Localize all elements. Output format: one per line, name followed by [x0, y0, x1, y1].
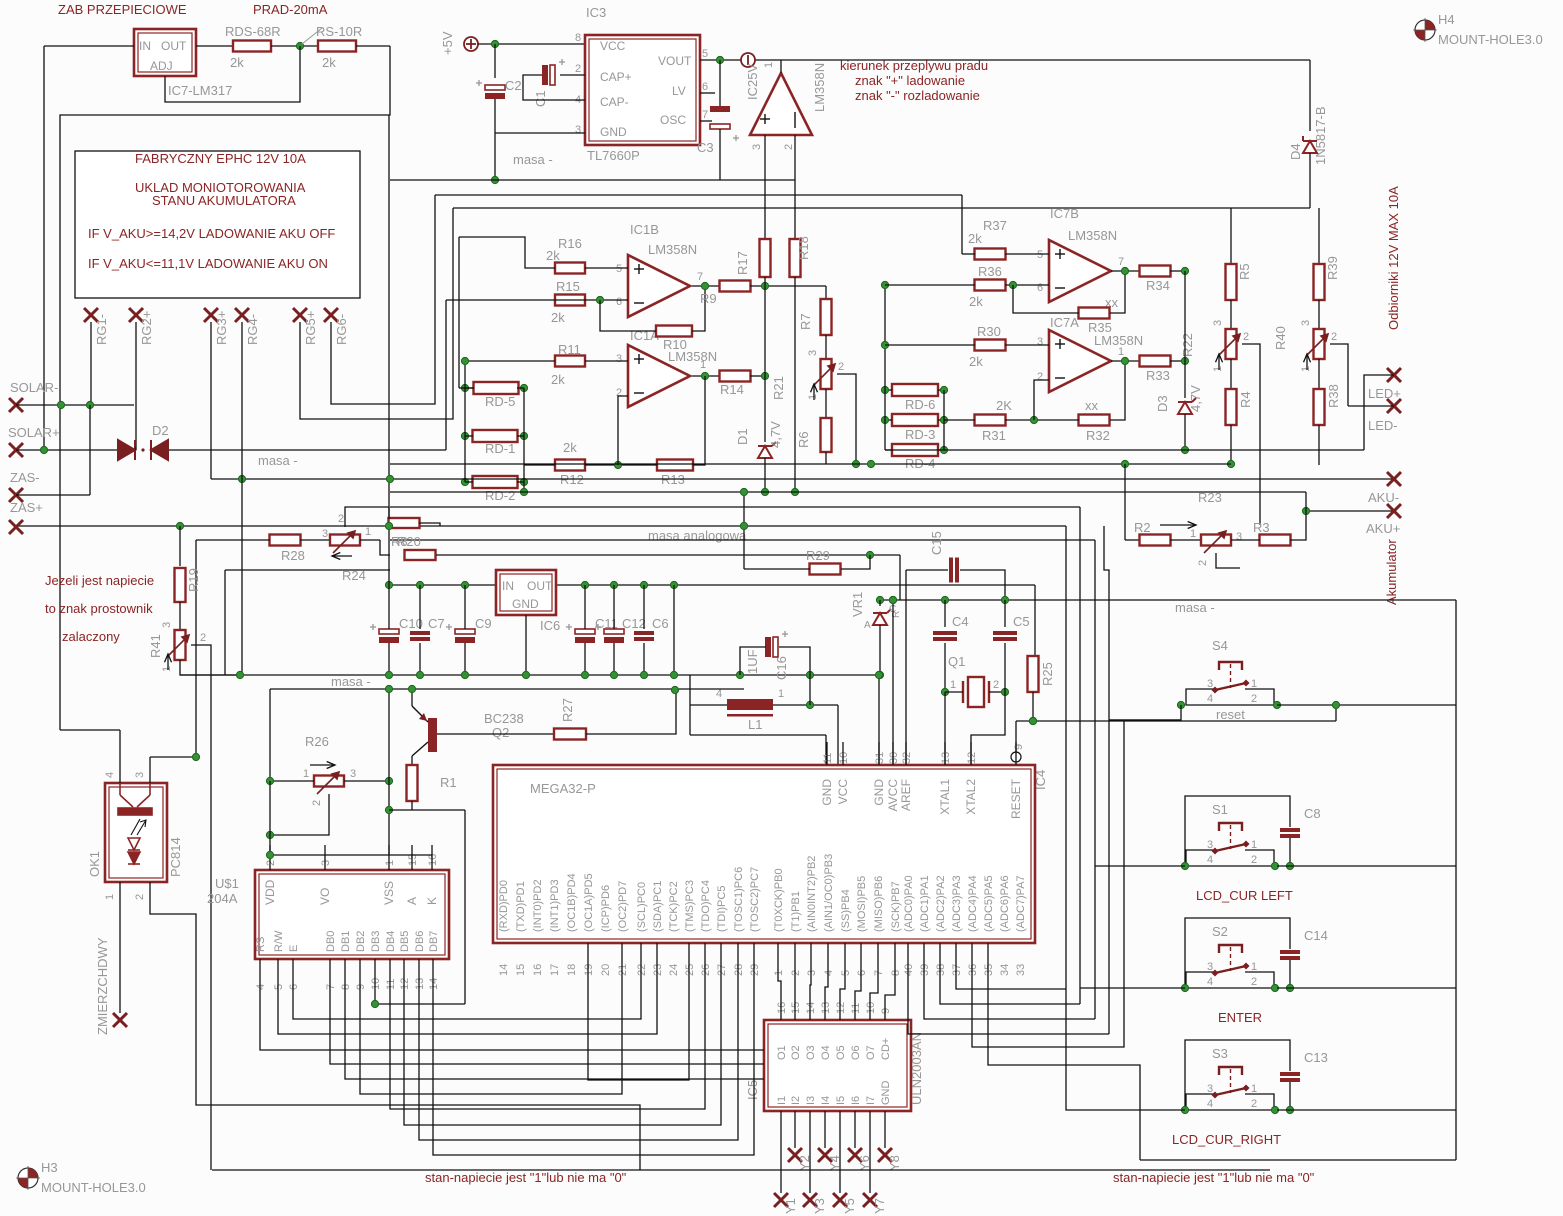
- wire R37 feed: [962, 253, 975, 255]
- svg-text:6: 6: [616, 296, 622, 308]
- label R32: [1086, 428, 1110, 443]
- svg-text:R7: R7: [798, 313, 813, 330]
- wire vcc pin10: [837, 705, 839, 765]
- svg-text:to znak prostownik: to znak prostownik: [45, 601, 153, 616]
- svg-text:2: 2: [1243, 331, 1249, 343]
- junction AVCC: [889, 596, 896, 603]
- wire R22 tap: [1242, 344, 1260, 525]
- wire RD-6 stub L: [885, 389, 892, 391]
- op-amp IC7A: [1049, 330, 1111, 392]
- pin CD+: [880, 1038, 892, 1060]
- svg-text:R34: R34: [1146, 278, 1170, 293]
- wire PB to ULN: [810, 943, 811, 1020]
- pin (SCL)PC0: [636, 882, 648, 932]
- label R27: [560, 698, 575, 722]
- junction RD2 R: [520, 478, 527, 485]
- pin GND: [872, 779, 886, 806]
- svg-text:R28: R28: [281, 548, 305, 563]
- wire masa rail top: [390, 179, 795, 181]
- pin2 R24: [338, 513, 344, 525]
- junction S4 R: [1273, 701, 1280, 708]
- pin (MISO)PB6: [873, 876, 885, 932]
- wire R16 feed: [459, 237, 555, 268]
- svg-text:2: 2: [338, 513, 344, 525]
- svg-text:(ADC4)PA4: (ADC4)PA4: [967, 875, 979, 932]
- wire R3 up: [1290, 511, 1306, 540]
- svg-text:R6: R6: [796, 431, 811, 448]
- wire SOLAR+ b: [168, 449, 446, 451]
- wire rail y464: [390, 463, 1231, 465]
- svg-text:kierunek przeplywu pradu: kierunek przeplywu pradu: [840, 58, 988, 73]
- wire PB to ULN: [794, 943, 796, 1020]
- wire col 1095: [1094, 540, 1096, 1019]
- svg-text:I3: I3: [805, 1096, 817, 1105]
- label R1: [440, 775, 457, 790]
- label R6: [796, 431, 811, 448]
- pin I4: [820, 1096, 832, 1105]
- svg-text:OUT: OUT: [527, 579, 553, 593]
- wire R20 left vert: [388, 507, 390, 519]
- label LM358N IC7B: [1068, 228, 1117, 243]
- junction rail585 e: [610, 581, 617, 588]
- label R37: [983, 218, 1007, 233]
- switch S3: [1186, 1067, 1274, 1110]
- label D3: [1155, 395, 1170, 412]
- label IC6: [540, 618, 560, 633]
- wire rail y492 R23: [390, 491, 1306, 493]
- wire RESET pin: [1015, 721, 1017, 752]
- wire R4 down: [1230, 425, 1232, 464]
- svg-text:A: A: [864, 620, 871, 631]
- pin2 R40: [1331, 331, 1337, 343]
- wire rail y450: [885, 449, 1364, 451]
- svg-text:XTAL2: XTAL2: [964, 779, 978, 815]
- svg-text:3: 3: [1037, 336, 1043, 348]
- junction pot tap: [852, 460, 859, 467]
- svg-text:RD-5: RD-5: [485, 394, 515, 409]
- svg-text:RDS-68R: RDS-68R: [225, 24, 281, 39]
- value D1 4.7V: [768, 421, 783, 448]
- pin number 7: [325, 984, 337, 990]
- wire cap top: [388, 585, 390, 629]
- svg-text:(MOSI)PB5: (MOSI)PB5: [856, 876, 868, 932]
- wire RD5 stub: [459, 387, 474, 389]
- wire nest DB2: [360, 943, 622, 1094]
- pin1 Q1: [950, 679, 956, 691]
- pin number 11: [385, 979, 397, 990]
- wire RG3 down: [210, 322, 212, 479]
- wire ZAS-: [16, 494, 90, 496]
- svg-text:(OC1A)PD5: (OC1A)PD5: [583, 873, 595, 932]
- svg-text:(INT1)PD3: (INT1)PD3: [549, 879, 561, 932]
- svg-text:Y7: Y7: [872, 1198, 887, 1214]
- svg-text:C2: C2: [505, 78, 522, 93]
- wire RD3 to R31: [944, 419, 975, 421]
- svg-text:RESET: RESET: [1009, 778, 1023, 819]
- svg-text:1: 1: [1118, 346, 1124, 358]
- wire R2 pot: [1170, 539, 1200, 541]
- wire C16 left: [740, 647, 766, 675]
- wire cap top: [584, 585, 586, 629]
- label ULN2003AN: [909, 1032, 924, 1105]
- label IC1B: [630, 222, 659, 237]
- wire R11 pin3: [585, 360, 628, 362]
- wire pot to R6: [825, 389, 827, 419]
- svg-text:1: 1: [384, 860, 396, 866]
- svg-text:AREF: AREF: [899, 779, 913, 811]
- wire reset link: [1335, 705, 1337, 721]
- wire R36 pin6: [1005, 284, 1049, 286]
- junction RD1 R: [520, 432, 527, 439]
- wire uln bottom even: [854, 1111, 856, 1148]
- svg-text:IC7-LM317: IC7-LM317: [168, 83, 232, 98]
- svg-text:2: 2: [1331, 331, 1337, 343]
- pin number 9: [355, 984, 367, 990]
- label C3: [697, 140, 714, 155]
- junction R11 feed: [461, 357, 468, 364]
- op-amp IC1A: [628, 345, 690, 407]
- pin2 pot: [838, 361, 844, 373]
- wire nest DB7: [433, 943, 754, 1155]
- label RD-2: [485, 488, 515, 503]
- junction rail479 b: [386, 475, 393, 482]
- wire to C2: [494, 44, 496, 78]
- svg-text:I5: I5: [835, 1096, 847, 1105]
- pin 5: [702, 48, 708, 60]
- svg-text:stan-napiecie jest "1"lub nie: stan-napiecie jest "1"lub nie ma "0": [1113, 1170, 1315, 1185]
- wire RG2: [135, 322, 137, 447]
- text stan-napiecie right: [1113, 1170, 1315, 1185]
- wire x446 down: [445, 300, 447, 450]
- wire OSC stub: [700, 120, 712, 122]
- svg-text:3: 3: [806, 970, 818, 976]
- svg-text:1: 1: [303, 768, 309, 780]
- label R2: [1134, 520, 1151, 535]
- wire R26 pin2: [270, 794, 329, 835]
- pin I7: [865, 1096, 877, 1105]
- wire R12 R13: [585, 464, 657, 466]
- wire uln bottom odd: [869, 1111, 871, 1193]
- wire pot R3: [1231, 539, 1260, 541]
- svg-text:(ADC7)PA7: (ADC7)PA7: [1015, 875, 1027, 932]
- svg-text:3: 3: [320, 860, 332, 866]
- svg-text:D1: D1: [735, 428, 750, 445]
- label R34: [1146, 278, 1170, 293]
- pin number 40: [903, 964, 915, 976]
- pin2 R22: [1243, 331, 1249, 343]
- pin1 R26: [303, 768, 309, 780]
- switch S1: [1186, 823, 1274, 866]
- junction +5V C2: [491, 40, 498, 47]
- wire S1 feed: [1095, 865, 1185, 867]
- svg-text:RG4-: RG4-: [245, 314, 260, 345]
- svg-text:3: 3: [1207, 1083, 1213, 1095]
- svg-text:(AIN1/OC0)PB3: (AIN1/OC0)PB3: [823, 854, 835, 932]
- svg-text:Y3: Y3: [812, 1198, 827, 1214]
- wire lcd bottom stub: [374, 959, 376, 995]
- junction D3 masa: [1181, 446, 1188, 453]
- junction R26 R: [385, 777, 392, 784]
- pin VO: [318, 888, 332, 905]
- pin number 10: [370, 978, 382, 990]
- pin DB1: [340, 931, 352, 952]
- wire RD left col: [884, 285, 886, 450]
- svg-text:R19: R19: [186, 568, 201, 592]
- pin 6: [702, 81, 708, 93]
- pin (TMS)PC3: [684, 880, 696, 932]
- wire lcd top stub: [269, 845, 271, 870]
- svg-text:1: 1: [773, 970, 785, 976]
- no-connect LED-: [1387, 399, 1401, 413]
- wire x196 vertical: [195, 540, 197, 757]
- svg-text:I1: I1: [776, 1096, 788, 1105]
- wire cap bottom: [584, 643, 586, 675]
- junction masa675: [461, 671, 468, 678]
- svg-text:32: 32: [901, 752, 913, 764]
- label R18: [796, 236, 811, 260]
- label R24: [342, 568, 366, 583]
- resistor R6: [821, 418, 832, 452]
- svg-text:masa -: masa -: [513, 152, 553, 167]
- wire RD-5 stub R: [517, 387, 524, 389]
- wire RG4 down: [241, 322, 243, 675]
- wire LV stub: [700, 92, 715, 94]
- svg-text:LM358N: LM358N: [812, 63, 827, 112]
- op-amp IC7B: [1049, 240, 1111, 302]
- label Q1: [948, 654, 965, 669]
- svg-text:reset: reset: [1216, 707, 1245, 722]
- wire cap bottom: [613, 643, 615, 675]
- pin4 OK1: [104, 772, 116, 778]
- wire Q2 base: [437, 733, 554, 735]
- wire v744: [743, 492, 745, 569]
- svg-text:1: 1: [1251, 961, 1257, 973]
- svg-text:C16: C16: [774, 656, 789, 680]
- svg-text:1: 1: [1212, 366, 1224, 372]
- wire R25 down: [1032, 692, 1034, 721]
- pin (INT0)PD2: [532, 879, 544, 932]
- value 2k R11: [551, 372, 565, 387]
- svg-text:R5: R5: [1237, 263, 1252, 280]
- svg-text:1: 1: [365, 526, 371, 538]
- text FABRYCZNY EPHC 12V 10A: [135, 151, 306, 166]
- wire RD-3 stub R: [938, 419, 944, 421]
- svg-text:DB3: DB3: [370, 931, 382, 952]
- wire RD-3 stub L: [885, 419, 892, 421]
- junction S3 a: [1271, 1106, 1278, 1113]
- wire lcd bottom stub: [344, 959, 346, 995]
- svg-text:VDD: VDD: [263, 879, 277, 905]
- svg-text:4: 4: [823, 970, 835, 976]
- svg-text:SOLAR-: SOLAR-: [10, 380, 58, 395]
- pin number 10: [838, 752, 850, 764]
- label IC3: [586, 5, 606, 20]
- wire down a: [689, 705, 691, 735]
- label R40: [1273, 326, 1288, 350]
- label R31: [982, 428, 1006, 443]
- wire lcd bottom stub: [292, 959, 294, 995]
- wire out IC1B: [692, 285, 719, 287]
- wire to R7: [825, 286, 827, 299]
- wire L1 left: [690, 704, 727, 706]
- svg-text:1: 1: [1251, 839, 1257, 851]
- wiper arrow R26: [310, 762, 335, 769]
- label IC7A: [1050, 315, 1079, 330]
- pin E: [288, 945, 300, 952]
- svg-text:R1: R1: [440, 775, 457, 790]
- text Odbiorniki: [1386, 186, 1401, 330]
- svg-text:3: 3: [134, 772, 146, 778]
- wire reset row: [1016, 720, 1336, 722]
- value 2k R15: [551, 310, 565, 325]
- svg-text:CAP-: CAP-: [600, 95, 629, 109]
- svg-text:O5: O5: [835, 1045, 847, 1060]
- wire x389 link: [388, 115, 390, 526]
- svg-text:2k: 2k: [563, 440, 577, 455]
- svg-text:PRAD-20mA: PRAD-20mA: [253, 2, 328, 17]
- svg-text:(TDI)PC5: (TDI)PC5: [716, 886, 728, 932]
- pin1 R3pot: [1190, 528, 1196, 540]
- label R12: [560, 472, 584, 487]
- potentiometer R41: [175, 630, 186, 660]
- opto arrows: [131, 819, 146, 835]
- svg-text:5: 5: [840, 970, 852, 976]
- wire AKU+ up: [1305, 492, 1307, 511]
- pin3 OK1: [134, 772, 146, 778]
- svg-text:S2: S2: [1212, 924, 1228, 939]
- label S1: [1212, 802, 1228, 817]
- wire box S1: [1185, 796, 1290, 866]
- pin number 23: [652, 964, 664, 976]
- pin number 18: [566, 964, 578, 976]
- svg-text:R15: R15: [556, 279, 580, 294]
- pin1 R24: [365, 526, 371, 538]
- svg-text:R4: R4: [1238, 391, 1253, 408]
- wire x225 down: [224, 570, 226, 675]
- svg-text:S3: S3: [1212, 1046, 1228, 1061]
- pin O5: [835, 1045, 847, 1060]
- svg-text:R31: R31: [982, 428, 1006, 443]
- svg-text:GND: GND: [820, 779, 834, 806]
- svg-text:(SCL)PC0: (SCL)PC0: [636, 882, 648, 932]
- pin1 R41: [161, 666, 173, 672]
- resistor R27: [554, 729, 586, 740]
- svg-text:R33: R33: [1146, 368, 1170, 383]
- junction 689: [385, 685, 392, 692]
- wire RD-4 stub L: [885, 449, 892, 451]
- svg-text:19: 19: [583, 964, 595, 976]
- label R10: [663, 337, 687, 352]
- wire nest DB3: [375, 995, 465, 1004]
- svg-text:R37: R37: [983, 218, 1007, 233]
- label IC7B: [1050, 206, 1079, 221]
- pin number 11: [850, 1003, 862, 1014]
- svg-text:1: 1: [104, 894, 116, 900]
- wire R16 to pin5: [585, 267, 628, 269]
- svg-text:ULN2003AN: ULN2003AN: [909, 1032, 924, 1105]
- label masa mid: [258, 453, 298, 468]
- resistor RD-3: [892, 414, 938, 426]
- svg-text:37: 37: [951, 964, 963, 976]
- pin number 4: [255, 984, 267, 990]
- pin (SDA)PC1: [652, 881, 664, 932]
- svg-text:znak "-" rozladowanie: znak "-" rozladowanie: [855, 88, 980, 103]
- wire S2 out: [1277, 987, 1456, 989]
- label RS-10R: [316, 24, 362, 39]
- text znak "-" rozladowanie: [855, 88, 980, 103]
- resistor R19: [175, 568, 186, 602]
- wire lcd top stub: [431, 845, 433, 870]
- resistor R2: [1140, 535, 1171, 546]
- pin number 12: [966, 752, 978, 764]
- junction lcd rail: [266, 851, 273, 858]
- wire y730 OK1: [60, 729, 120, 731]
- pin OUT IC6: [527, 579, 553, 593]
- wire RG1: [90, 322, 92, 405]
- no-connect Y even: [788, 1148, 802, 1162]
- wire pa2: [940, 943, 1080, 1004]
- resistor R28: [270, 535, 301, 546]
- svg-text:3: 3: [322, 528, 328, 540]
- svg-text:masa -: masa -: [258, 453, 298, 468]
- svg-text:R32: R32: [1086, 428, 1110, 443]
- pin (MOSI)PB5: [856, 876, 868, 932]
- svg-text:3: 3: [1207, 839, 1213, 851]
- wire cap top: [419, 585, 421, 629]
- svg-text:1: 1: [763, 62, 775, 68]
- label C2: [505, 78, 522, 93]
- wire R30 pin3: [1005, 344, 1049, 346]
- pin number 5: [273, 984, 285, 990]
- junction masa675: [385, 671, 392, 678]
- wire C3 down: [719, 129, 721, 180]
- wire rail y1170: [212, 1169, 1270, 1171]
- junction masa675: [876, 671, 883, 678]
- label A: [864, 620, 871, 631]
- pin number 14: [428, 978, 440, 990]
- svg-text:R3: R3: [1253, 520, 1270, 535]
- value 2k R30: [969, 354, 983, 369]
- resistor R25: [1028, 656, 1039, 692]
- capacitor C9: [446, 624, 475, 643]
- svg-text:RD-6: RD-6: [905, 397, 935, 412]
- wire R2 feed: [1124, 464, 1126, 540]
- wire x465 down: [464, 810, 466, 1004]
- wire uln bottom odd: [809, 1111, 811, 1193]
- wire R19 feed: [179, 526, 181, 566]
- pin number 13: [820, 1002, 832, 1014]
- label AKU-: [1368, 490, 1399, 505]
- wire lcd top stub: [388, 845, 390, 870]
- svg-text:H3: H3: [41, 1160, 58, 1175]
- svg-text:OUT: OUT: [161, 39, 187, 53]
- svg-text:C4: C4: [952, 614, 969, 629]
- wire ADJ connection: [165, 46, 300, 102]
- resistor R16: [555, 263, 585, 274]
- pin number 37: [951, 964, 963, 976]
- resistor R5: [1226, 264, 1237, 300]
- svg-text:U$1: U$1: [215, 876, 239, 891]
- svg-text:2k: 2k: [551, 372, 565, 387]
- wire OUT to RDS: [196, 45, 240, 47]
- wire C5 top: [1004, 600, 1006, 627]
- wire rail y195: [435, 194, 962, 196]
- svg-text:3: 3: [751, 144, 763, 150]
- wire pot pin2: [1216, 553, 1240, 568]
- wire x212 down: [210, 1052, 212, 1170]
- wire C4 top: [944, 600, 946, 627]
- svg-text:(MISO)PB6: (MISO)PB6: [873, 876, 885, 932]
